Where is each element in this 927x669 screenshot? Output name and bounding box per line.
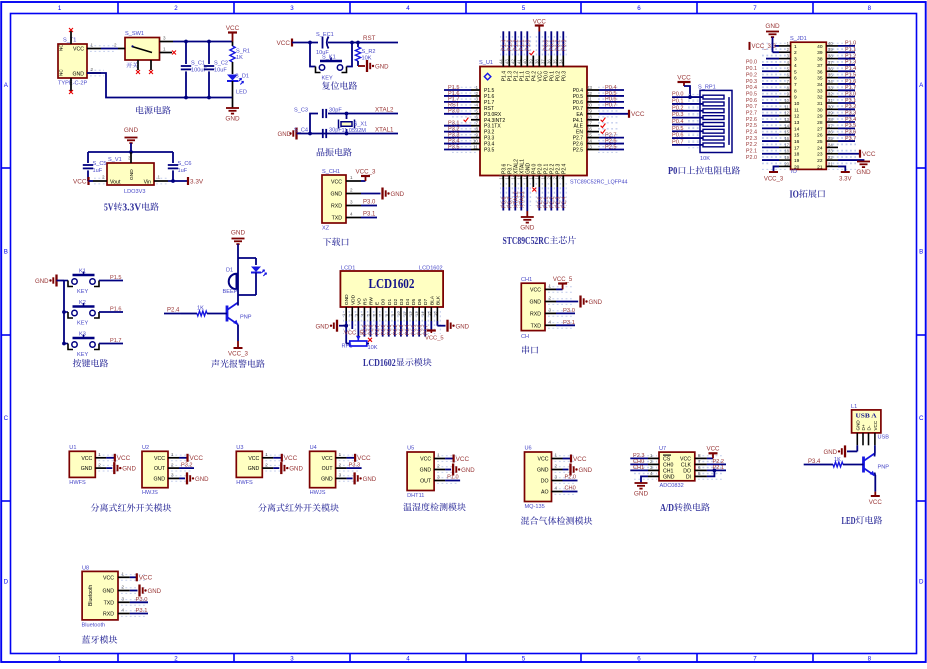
svg-text:D1: D1 <box>387 299 393 305</box>
wire JD1 P0.2 <box>762 77 779 79</box>
svg-text:2: 2 <box>174 656 178 663</box>
svg-text:D-: D- <box>867 425 872 430</box>
pin U1 31 P0.6 <box>587 101 599 103</box>
svg-text:36: 36 <box>817 69 823 75</box>
wire power top rail <box>173 41 233 43</box>
capacitor S_C6 1uF <box>172 152 174 163</box>
svg-text:1: 1 <box>475 85 478 90</box>
wire VCC to RP1 <box>684 86 702 97</box>
ground GND U6 <box>569 464 571 476</box>
svg-text:2: 2 <box>794 50 797 56</box>
svg-text:4: 4 <box>406 5 410 12</box>
svg-text:2: 2 <box>650 459 653 464</box>
node xtal bottom <box>345 132 349 136</box>
power 3.3V JD1 <box>841 171 850 173</box>
svg-text:11: 11 <box>785 104 790 109</box>
svg-text:4: 4 <box>475 103 478 108</box>
svg-text:3: 3 <box>290 5 294 12</box>
pin U1 18 P2.0 bottom <box>538 176 540 188</box>
wire U1 left P3.5 <box>444 149 471 151</box>
power VCC U1 <box>114 454 116 462</box>
svg-text:36: 36 <box>828 66 833 71</box>
svg-text:11: 11 <box>473 144 478 149</box>
wire JD1 P0.7 <box>762 108 779 110</box>
svg-text:VCC: VCC <box>284 455 298 462</box>
svg-text:P3.3: P3.3 <box>845 110 856 116</box>
wire XTAL1 rail <box>297 133 399 135</box>
pin U1 10 P3.4 <box>471 143 480 145</box>
svg-text:RXD: RXD <box>331 204 342 210</box>
svg-text:GND: GND <box>579 467 593 474</box>
wire U1 right P0.4 <box>599 89 624 91</box>
wire LCD D4 <box>406 321 408 337</box>
wire JD1 P0.0 <box>762 64 779 66</box>
svg-text:1K: 1K <box>236 55 243 61</box>
svg-text:39: 39 <box>828 47 833 52</box>
wire U2 P3.2 <box>179 467 194 469</box>
svg-text:VCC: VCC <box>420 457 431 463</box>
power VCC left <box>87 177 89 185</box>
wire U8 VCC <box>130 576 137 578</box>
power VCC U2 <box>186 454 188 462</box>
pin JD1 17 <box>779 146 791 148</box>
wire pin1 to 3.3V <box>168 180 188 182</box>
svg-text:GND: GND <box>124 127 139 134</box>
svg-text:34: 34 <box>817 82 823 88</box>
svg-text:D3: D3 <box>399 299 405 305</box>
svg-text:32: 32 <box>817 95 823 101</box>
ground GND U5 <box>452 464 454 476</box>
wire U6 P2.0 <box>563 480 578 482</box>
pin SW1 1 no-connect <box>160 52 173 54</box>
svg-text:S_U1: S_U1 <box>479 60 493 66</box>
svg-text:K2: K2 <box>79 300 86 306</box>
svg-text:VCC_3: VCC_3 <box>356 169 377 176</box>
svg-text:33: 33 <box>828 85 833 90</box>
svg-text:2: 2 <box>98 462 101 467</box>
svg-text:10K: 10K <box>368 345 378 351</box>
svg-text:8: 8 <box>868 5 872 12</box>
svg-text:VCC: VCC <box>81 456 92 462</box>
pin JD1 8 <box>779 89 791 91</box>
svg-text:P0.0: P0.0 <box>672 92 684 98</box>
svg-text:VCC: VCC <box>103 575 114 581</box>
svg-text:19: 19 <box>794 158 800 164</box>
wire serial VCC_5 <box>556 288 563 290</box>
svg-text:22: 22 <box>817 158 823 164</box>
svg-text:OUT: OUT <box>322 466 334 472</box>
svg-text:8: 8 <box>794 88 797 94</box>
power VCC_3 JD1 <box>769 171 778 173</box>
pin T1 bottom no-connect <box>70 78 72 91</box>
power VCC U6 <box>570 455 572 463</box>
pin JD1 13 <box>779 121 791 123</box>
svg-text:S_C4: S_C4 <box>294 128 308 134</box>
svg-text:CH1: CH1 <box>521 277 532 283</box>
svg-text:1: 1 <box>122 571 125 576</box>
svg-text:HWJS: HWJS <box>142 490 158 496</box>
node top rail C2 <box>207 40 211 44</box>
svg-text:23: 23 <box>587 144 593 149</box>
pin U1 40 P1.0 top <box>526 56 528 67</box>
wire LCD D6 <box>418 321 420 337</box>
pin JD1 10 <box>779 102 791 104</box>
svg-text:P0.6: P0.6 <box>746 98 757 104</box>
svg-text:9: 9 <box>794 95 797 101</box>
pin JD1 27 <box>826 127 838 129</box>
wire LCD RW <box>370 321 372 337</box>
svg-text:3: 3 <box>290 656 294 663</box>
capacitor S_C2 10uF <box>208 42 210 65</box>
svg-text:4: 4 <box>549 319 552 324</box>
pin U1 15 XTAL1 bottom <box>520 176 522 188</box>
pin U1 4 RST <box>471 107 480 109</box>
svg-text:D: D <box>919 579 924 586</box>
svg-text:P3.5: P3.5 <box>845 123 856 129</box>
svg-text:RXD: RXD <box>103 612 114 618</box>
pin SW1 bottom stubs no-connect <box>137 60 139 70</box>
svg-text:P2.4: P2.4 <box>562 196 568 208</box>
wire U7 GND <box>641 476 648 483</box>
wire U7 CH0 <box>630 463 648 465</box>
svg-text:4: 4 <box>650 471 653 476</box>
svg-text:USB: USB <box>878 435 890 441</box>
pin JD1 31 <box>826 102 838 104</box>
svg-text:10uF: 10uF <box>214 68 227 74</box>
svg-text:KEY: KEY <box>322 76 333 82</box>
svg-text:HWFS: HWFS <box>69 480 86 486</box>
svg-text:BLA: BLA <box>429 295 435 305</box>
svg-text:P0: P0 <box>668 166 677 177</box>
svg-text:U2: U2 <box>142 445 149 451</box>
svg-text:D0: D0 <box>381 299 387 305</box>
no-connect pot right <box>368 338 372 342</box>
svg-text:GND: GND <box>148 588 162 595</box>
svg-text:P0.5: P0.5 <box>672 126 684 132</box>
node LDO pin3 <box>129 150 133 154</box>
svg-text:E: E <box>375 302 381 305</box>
svg-text:23: 23 <box>817 152 823 158</box>
pin V1 3 <box>130 152 132 163</box>
svg-text:2: 2 <box>114 43 117 48</box>
pin U1 5 P3.0RX <box>471 113 480 115</box>
pin U1 37 P0.0 top <box>544 56 546 67</box>
svg-text:VCC: VCC <box>869 499 883 506</box>
wire LCD E <box>376 321 378 337</box>
svg-text:P3.1: P3.1 <box>136 608 148 614</box>
wire U3 GND <box>273 467 279 469</box>
wire U6 CH0 <box>563 491 578 493</box>
svg-text:P1.0: P1.0 <box>845 41 856 47</box>
node xtal left <box>308 132 312 136</box>
svg-text:GND: GND <box>122 466 136 473</box>
svg-text:40: 40 <box>522 59 527 64</box>
svg-text:1: 1 <box>555 453 558 458</box>
svg-text:P1.4: P1.4 <box>845 66 856 72</box>
wire reset RST rail <box>328 42 398 44</box>
svg-text:S_D1: S_D1 <box>235 74 249 80</box>
pin U1 8 P3.2 <box>471 131 480 133</box>
svg-text:P3.6: P3.6 <box>845 130 856 136</box>
no-connect U1 pin 27 <box>601 124 606 128</box>
wire RP1 P0.0 <box>672 96 703 98</box>
svg-text:S_C5: S_C5 <box>93 161 107 167</box>
svg-text:31: 31 <box>828 98 833 103</box>
wire key P1.6 <box>99 311 123 313</box>
wire U7 CH1 <box>630 469 648 471</box>
svg-text:1: 1 <box>58 656 62 663</box>
svg-text:12: 12 <box>784 111 789 116</box>
caption bluetooth <box>82 635 117 643</box>
svg-text:RS: RS <box>362 298 368 305</box>
svg-text:15: 15 <box>784 130 789 135</box>
wire U6 VCC <box>563 458 571 460</box>
svg-text:LED: LED <box>236 90 247 96</box>
svg-text:10: 10 <box>784 98 789 103</box>
pin U1 39 P4.2 top <box>532 56 534 67</box>
ground U7 GND <box>635 482 648 484</box>
pin JD1 36 <box>826 70 838 72</box>
wire LCD D0 <box>382 321 384 337</box>
svg-text:P0.5: P0.5 <box>746 91 757 97</box>
pin JD1 28 <box>826 121 838 123</box>
wire LCD BLK gnd <box>436 321 438 326</box>
svg-text:6: 6 <box>637 5 641 12</box>
svg-text:VCC: VCC <box>530 287 541 293</box>
wire JD1 3.3V <box>838 166 845 172</box>
pin U1 44 P1.4 top <box>502 56 504 67</box>
pin JD1 32 <box>826 96 838 98</box>
svg-text:1: 1 <box>265 452 268 457</box>
wire U5 GND <box>445 469 451 471</box>
wire serial P3.1 <box>556 324 575 326</box>
svg-text:Bluetooth: Bluetooth <box>88 585 94 606</box>
svg-text:DI: DI <box>686 474 691 480</box>
wire LCD GND pin1 <box>345 321 347 326</box>
crystal S_X1 11.0592M <box>346 114 348 120</box>
wire U1 GND bottom <box>526 187 528 211</box>
svg-text:12: 12 <box>794 114 800 120</box>
wire JD1 P1.0 <box>838 45 855 47</box>
svg-text:GND: GND <box>634 491 649 498</box>
pin U1 11 P3.5 <box>471 149 480 151</box>
caption serial port <box>522 346 538 354</box>
svg-text:24: 24 <box>817 145 823 151</box>
svg-text:VCC_3: VCC_3 <box>228 351 249 358</box>
wire U1 bottom P2.0 <box>538 187 540 211</box>
no-connect U1 pin 26 <box>601 129 606 133</box>
wire JD1 P1.7 <box>838 89 855 91</box>
wire JD1 P0.3 <box>762 83 779 85</box>
pin JD1 22 <box>826 159 838 161</box>
svg-text:2: 2 <box>174 5 178 12</box>
wire LCD BLA VCC_5 <box>430 321 432 331</box>
svg-text:13: 13 <box>784 117 789 122</box>
svg-text:18: 18 <box>794 152 800 158</box>
wire key left leg <box>310 43 316 67</box>
svg-text:1: 1 <box>158 175 161 180</box>
pin CH1 3 <box>346 205 361 207</box>
wire U7 CLK P2.2 <box>707 463 726 465</box>
svg-text:GND: GND <box>129 169 135 180</box>
pin SW1 2 <box>118 48 125 50</box>
pin U1 30 P0.7 <box>587 107 599 109</box>
pin JD1 1 <box>779 45 791 47</box>
pin JD1 6 <box>779 77 791 79</box>
wire U1 left P1.5 <box>444 89 471 91</box>
wire serial P3.0 <box>556 312 575 314</box>
svg-text:VCC: VCC <box>248 456 259 462</box>
svg-text:OUT: OUT <box>420 479 432 485</box>
svg-text:B: B <box>919 249 923 256</box>
svg-text:S_T1: S_T1 <box>63 38 76 44</box>
wire U8 P3.1 <box>130 613 148 615</box>
svg-text:GND: GND <box>855 420 860 431</box>
svg-text:TYPE-C-2P: TYPE-C-2P <box>58 81 87 87</box>
svg-text:GND: GND <box>330 192 342 198</box>
pin JD1 18 <box>779 153 791 155</box>
wire U4 VCC <box>347 457 355 459</box>
pin U1 27 ALE <box>587 125 599 127</box>
pin U1 22 P2.4 bottom <box>562 176 564 188</box>
wire U1 bottom P2.4 <box>562 187 564 211</box>
pin U1 9 P3.3 <box>471 137 480 139</box>
svg-text:2: 2 <box>91 67 94 72</box>
pin JD1 35 <box>826 77 838 79</box>
svg-text:P2.5: P2.5 <box>573 148 584 154</box>
ground serial GND <box>579 296 581 308</box>
svg-text:GND: GND <box>856 169 871 176</box>
wire U1 top P1.0 <box>526 31 528 55</box>
pin JD1 15 <box>779 134 791 136</box>
ground U8 GND <box>138 585 140 597</box>
pin JD1 19 <box>779 159 791 161</box>
svg-text:DO: DO <box>541 479 549 485</box>
svg-text:1: 1 <box>650 453 653 458</box>
svg-text:2: 2 <box>339 462 342 467</box>
caption crystal circuit <box>317 148 352 156</box>
LED S_D1 <box>232 68 234 74</box>
svg-text:P2.1: P2.1 <box>746 149 757 155</box>
wire RP1 P0.3 <box>672 117 703 119</box>
svg-text:16: 16 <box>794 139 800 145</box>
svg-text:33: 33 <box>817 88 823 94</box>
pin JD1 37 <box>826 64 838 66</box>
wire U1 VCC top <box>538 32 540 56</box>
capacitor S_C1 100uF <box>185 42 187 65</box>
svg-text:P3.4: P3.4 <box>845 117 856 123</box>
svg-text:P1.1: P1.1 <box>845 47 856 53</box>
svg-text:D6: D6 <box>417 299 423 305</box>
svg-text:27: 27 <box>587 121 593 126</box>
wire U1 right P2.7 <box>599 137 624 139</box>
svg-text:23: 23 <box>828 149 833 154</box>
svg-text:VCC: VCC <box>873 420 878 430</box>
svg-text:44: 44 <box>498 59 503 64</box>
svg-text:P3.2: P3.2 <box>181 462 193 468</box>
svg-text:2: 2 <box>350 188 353 193</box>
wire LED emitter <box>874 473 877 476</box>
LED branch wire <box>255 258 257 265</box>
node bottom rail C2 <box>207 96 211 100</box>
svg-text:13: 13 <box>794 120 800 126</box>
wire XTAL2 rail <box>328 113 398 115</box>
ground power GND <box>232 98 234 109</box>
caption download port <box>323 238 349 246</box>
svg-text:KEY: KEY <box>77 289 88 295</box>
svg-text:KEY: KEY <box>77 321 88 327</box>
svg-text:30: 30 <box>817 107 823 113</box>
svg-text:17: 17 <box>784 142 789 147</box>
svg-text:18: 18 <box>784 149 789 154</box>
svg-text:P2.4: P2.4 <box>561 163 567 174</box>
svg-text:S_CH1: S_CH1 <box>322 169 340 175</box>
wire JD1 P3.6 <box>838 134 855 136</box>
wire U6 GND <box>563 469 569 471</box>
pin JD1 33 <box>826 89 838 91</box>
wire U4 GND <box>347 477 353 479</box>
ground GND U2 <box>186 472 188 484</box>
pin JD1 39 <box>826 51 838 53</box>
svg-text:S_C1: S_C1 <box>191 61 205 67</box>
svg-text:P3.0: P3.0 <box>845 91 856 97</box>
svg-text:P3.0: P3.0 <box>448 109 460 115</box>
svg-text:P0.7: P0.7 <box>746 104 757 110</box>
svg-text:GND: GND <box>102 589 114 595</box>
svg-text:35: 35 <box>817 76 823 82</box>
svg-text:S_C6: S_C6 <box>178 161 192 167</box>
svg-text:RW: RW <box>369 297 375 305</box>
svg-text:39: 39 <box>817 50 823 56</box>
svg-text:37: 37 <box>540 59 545 64</box>
svg-text:GND: GND <box>225 116 240 123</box>
pin JD1 12 <box>779 115 791 117</box>
wire U1 left P3.1 <box>444 125 471 127</box>
svg-text:8: 8 <box>868 656 872 663</box>
pin U1 17 P4.0 bottom <box>532 176 534 188</box>
svg-text:5: 5 <box>794 69 797 75</box>
svg-text:OUT: OUT <box>154 466 166 472</box>
svg-text:IO: IO <box>790 190 799 201</box>
svg-text:25: 25 <box>817 139 823 145</box>
wire JD1 VCC right <box>838 153 860 155</box>
svg-text:GND: GND <box>529 300 541 306</box>
pin T1 GND 2 <box>87 72 101 74</box>
svg-text:P1.5: P1.5 <box>845 72 856 78</box>
svg-text:14: 14 <box>420 311 425 316</box>
pin U1 13 P3.7 bottom <box>508 176 510 188</box>
pin U1 23 P2.5 <box>587 149 599 151</box>
wire U2 GND <box>179 477 185 479</box>
svg-text:D: D <box>4 579 9 586</box>
wire LCD RS <box>363 321 365 337</box>
svg-text:27: 27 <box>817 126 823 132</box>
pin U1 21 P2.3 bottom <box>556 176 558 188</box>
svg-text:VDD: VDD <box>350 294 356 305</box>
wire emitter to VCC_3 <box>237 325 239 342</box>
wire U1 right P0.6 <box>599 101 624 103</box>
svg-text:STC89C52RC: STC89C52RC <box>503 236 550 247</box>
pin JD1 30 <box>826 108 838 110</box>
svg-text:P0.3: P0.3 <box>562 39 568 51</box>
svg-text:24: 24 <box>587 138 593 143</box>
svg-text:38: 38 <box>828 54 833 59</box>
svg-text:VCC: VCC <box>573 456 587 463</box>
svg-text:D1: D1 <box>226 268 233 274</box>
resistor S_R1 1K <box>232 42 234 47</box>
pin JD1 21 <box>826 165 838 167</box>
svg-text:8: 8 <box>475 126 478 131</box>
